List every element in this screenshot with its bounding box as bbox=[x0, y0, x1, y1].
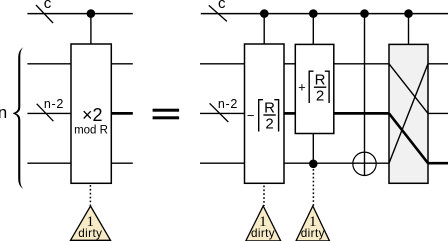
wire: control line to CNOT target bbox=[364, 14, 366, 176]
control dot 3 on c wire bbox=[360, 9, 369, 18]
wire: control line to -R/2 box bbox=[263, 14, 265, 44]
wire: right qubit 1 segment c bbox=[334, 63, 389, 65]
wire: control line below +R/2 box bbox=[312, 134, 314, 164]
swap line q1 to q2 bbox=[389, 64, 428, 114]
wire: control line to +R/2 box bbox=[312, 14, 314, 45]
control dot 1 on c wire bbox=[260, 9, 269, 18]
control dot 2 on c wire bbox=[309, 9, 318, 18]
CNOT target on qubit 3 bbox=[353, 152, 376, 175]
control dot 4 on c wire bbox=[404, 9, 413, 18]
wire: left qubit 2 (n-2 bus) bbox=[27, 112, 71, 114]
wire: left qubit 3 bbox=[27, 162, 71, 164]
bus slash on right n-2 wire bbox=[210, 103, 229, 122]
svg-text:n-2: n-2 bbox=[44, 97, 64, 111]
svg-text:dirty: dirty bbox=[301, 227, 325, 240]
wire: right qubit 1 segment a bbox=[200, 63, 245, 65]
right ceiling bracket (+R/2) bbox=[325, 71, 329, 103]
wire: right qubit 1 segment b bbox=[284, 63, 295, 65]
gate box +ceil(R/2) bbox=[295, 44, 334, 133]
svg-text:2: 2 bbox=[316, 88, 324, 105]
wire: control line to x2 box bbox=[90, 14, 92, 44]
equals sign bbox=[153, 109, 180, 112]
svg-text:R: R bbox=[264, 99, 275, 116]
swap permutation box bbox=[389, 44, 428, 183]
right ceiling bracket (-R/2) bbox=[274, 100, 278, 132]
wire: right qubit 2 segment b (bold dirty) bbox=[284, 112, 295, 115]
left ceiling bracket (+R/2) bbox=[309, 71, 313, 103]
svg-text:c: c bbox=[44, 0, 52, 12]
wire: left qubit 3 output stub bbox=[111, 162, 133, 164]
svg-text:×2: ×2 bbox=[82, 105, 103, 125]
fraction bar (+R/2) bbox=[314, 86, 326, 88]
left ceiling bracket (-R/2) bbox=[259, 100, 263, 132]
wire: right qubit 1 segment d bbox=[428, 63, 448, 65]
svg-text:dirty: dirty bbox=[78, 227, 102, 240]
triangle 1 dirty (right) bbox=[296, 206, 330, 241]
control dot on qubit 3 bbox=[309, 160, 318, 169]
svg-text:mod R: mod R bbox=[74, 125, 108, 137]
wire: right qubit 2 segment a (n-2 bus) bbox=[200, 112, 245, 114]
triangle 1 dirty (middle) bbox=[246, 206, 281, 241]
wire: left circuit control wire c bbox=[27, 13, 132, 15]
wire: control line to swap box bbox=[408, 14, 410, 45]
wire: right qubit 3 segment c (bold dirty) bbox=[428, 162, 448, 165]
bus slash on left n-2 wire bbox=[37, 104, 54, 121]
gate box x2 mod R bbox=[71, 44, 111, 183]
svg-text:c: c bbox=[218, 0, 226, 12]
svg-text:n: n bbox=[0, 103, 7, 122]
wire: right circuit control wire c bbox=[201, 13, 448, 15]
svg-text:−: − bbox=[247, 108, 255, 123]
swap line q3 to q1 bbox=[389, 64, 428, 163]
svg-text:R: R bbox=[315, 72, 326, 89]
svg-text:dirty: dirty bbox=[251, 227, 275, 240]
wire: right qubit 2 segment c (bold dirty) bbox=[334, 112, 390, 115]
wire: left qubit 1 bbox=[27, 63, 71, 65]
wire: right qubit 2 segment d bbox=[428, 112, 448, 114]
wire: left qubit 2 output stub (bold dirty) bbox=[111, 112, 133, 115]
fraction bar (-R/2) bbox=[263, 114, 275, 116]
swap line q2 to q3 (bold dirty) bbox=[389, 113, 428, 163]
dotted borrow line (left) bbox=[89, 185, 91, 206]
wire: right qubit 3 segment a bbox=[200, 162, 245, 164]
svg-text:2: 2 bbox=[265, 116, 273, 133]
gate box -ceil(R/2) bbox=[245, 44, 285, 183]
svg-text:n-2: n-2 bbox=[218, 97, 238, 111]
bus slash on right control wire bbox=[209, 5, 227, 21]
control dot on c wire (left) bbox=[87, 9, 96, 18]
wire: right qubit 3 segment b bbox=[284, 162, 389, 164]
dotted borrow line (right) bbox=[312, 169, 314, 206]
wire: left qubit 1 output stub bbox=[111, 63, 133, 65]
bus slash on left control wire bbox=[36, 5, 53, 23]
brace for register n bbox=[13, 47, 23, 189]
dotted borrow line (middle) bbox=[263, 186, 265, 207]
triangle 1 dirty (left) bbox=[71, 206, 111, 240]
svg-text:+: + bbox=[298, 79, 306, 94]
